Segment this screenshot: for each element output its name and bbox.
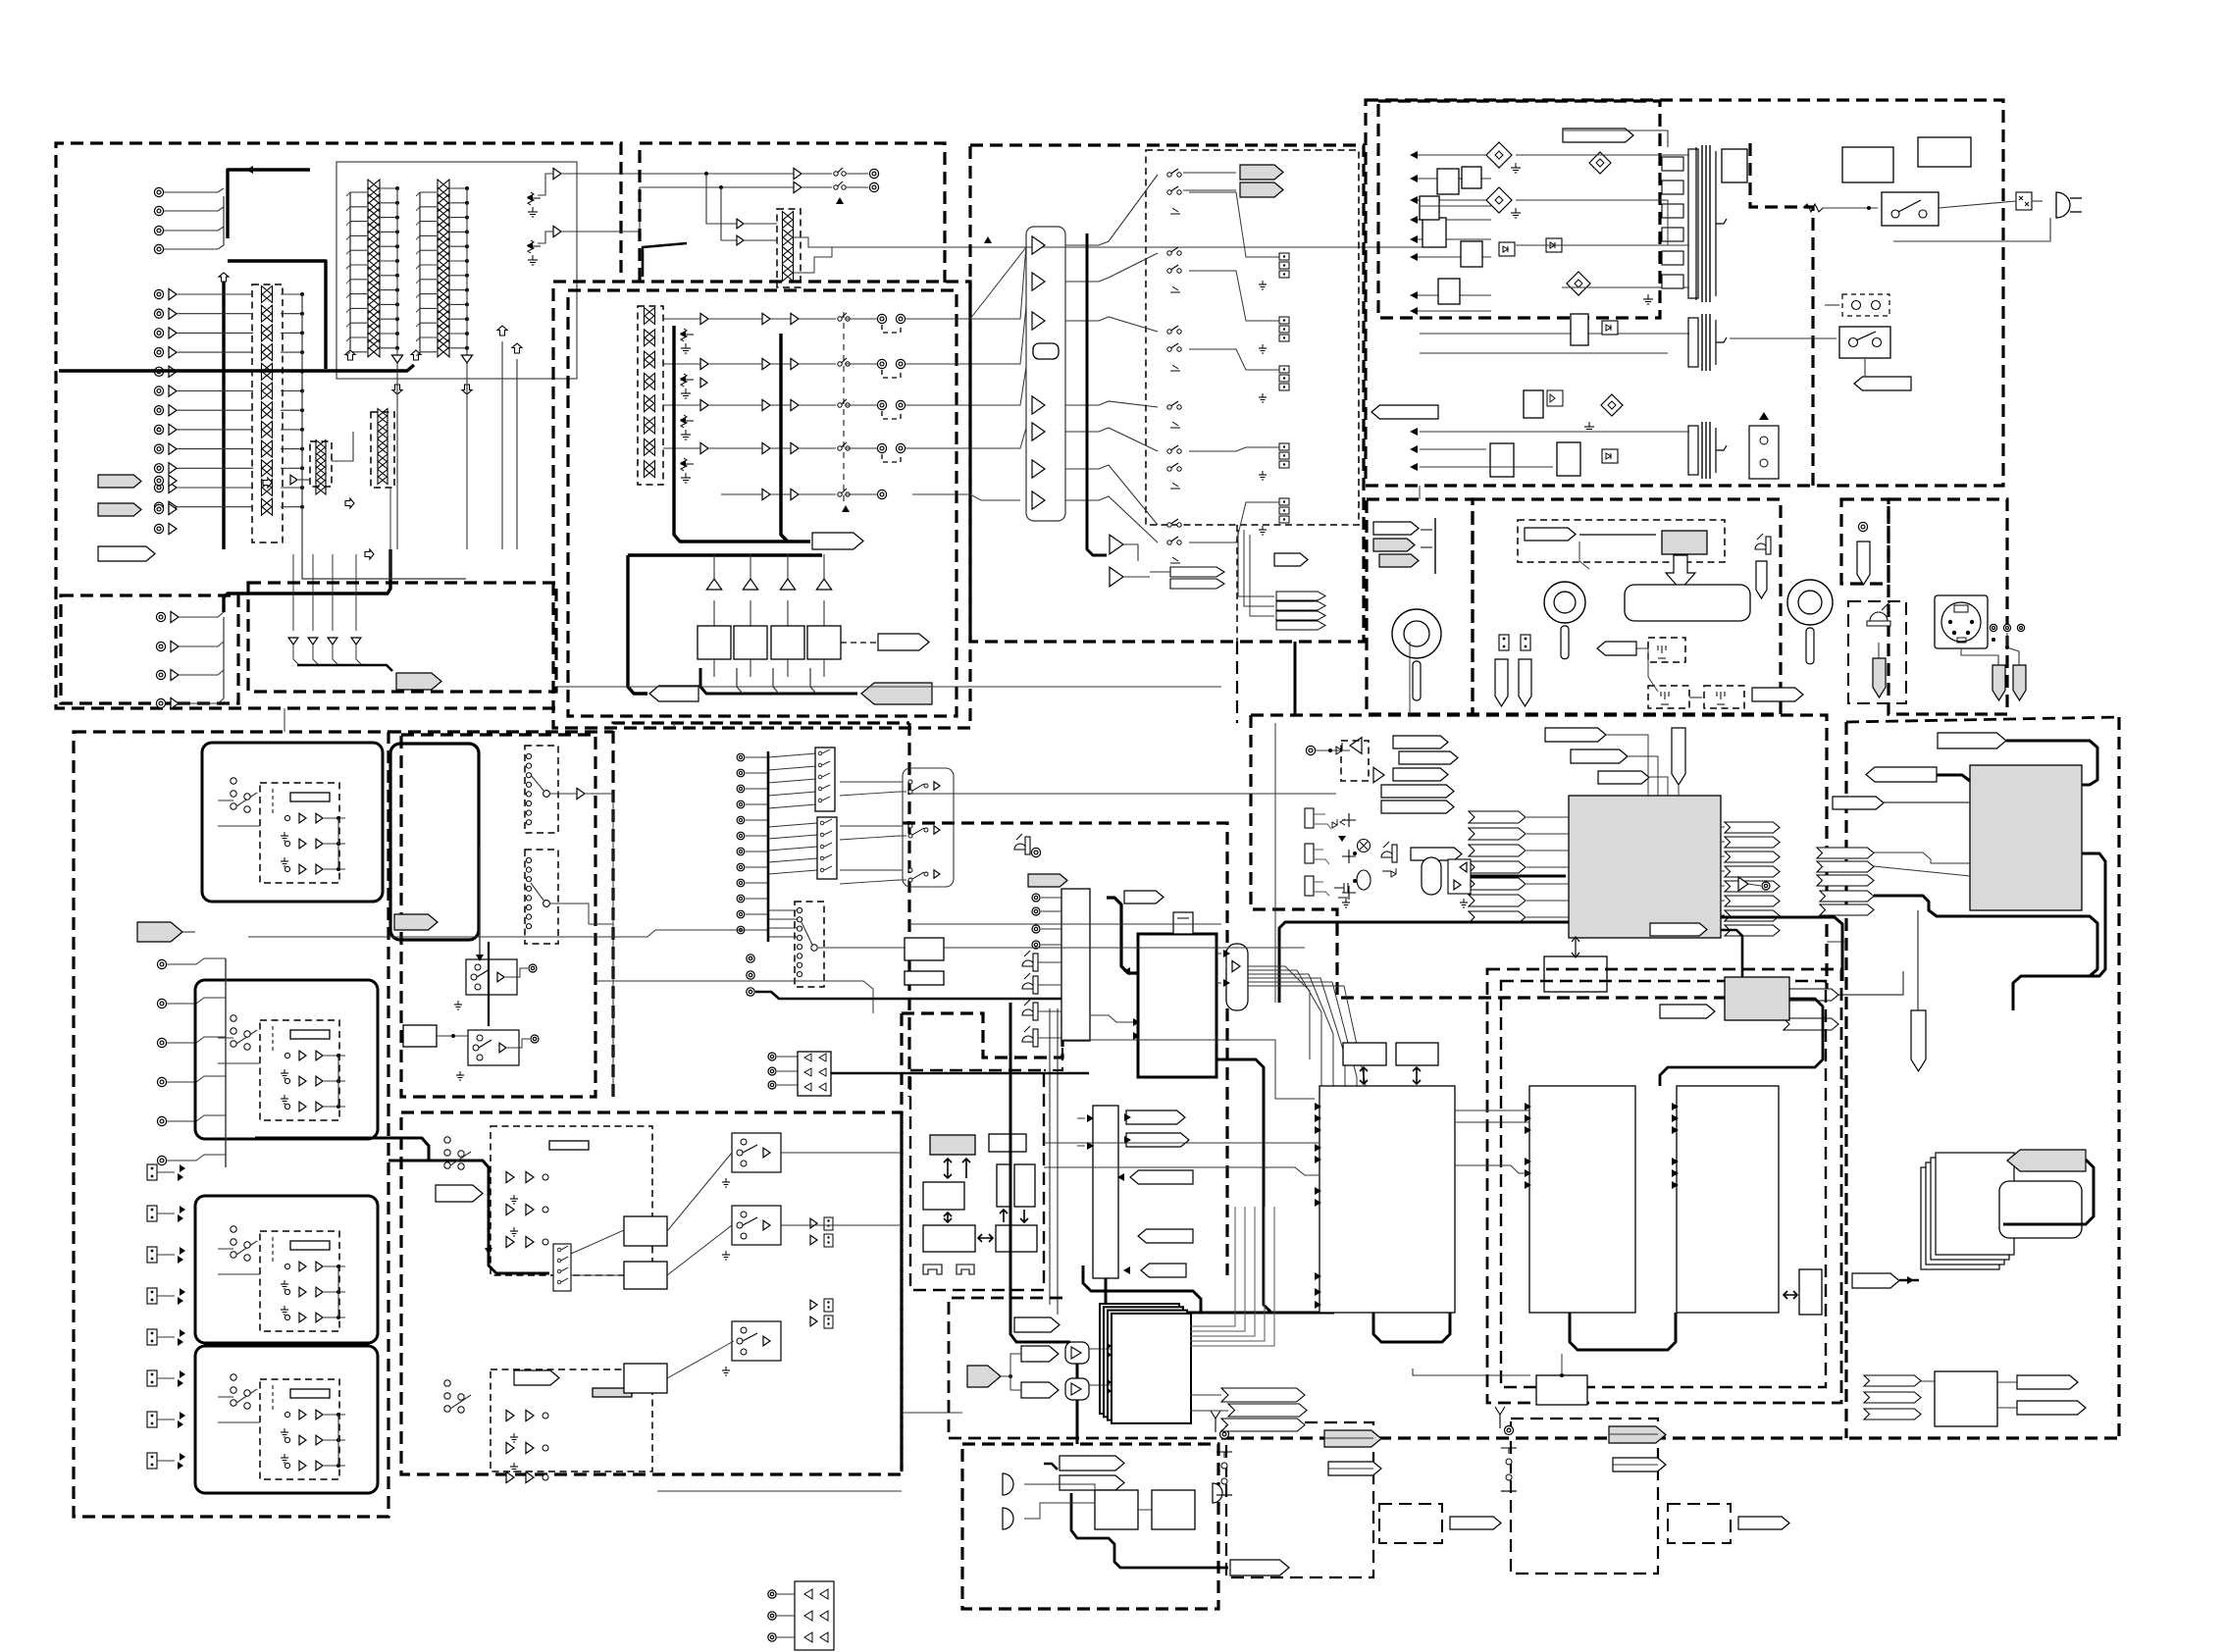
terminal stack 3 <box>1279 366 1289 390</box>
psu wire h5 <box>1420 352 1668 354</box>
xlr wire 6 <box>157 1377 175 1379</box>
strip 1 fan2 <box>244 794 250 812</box>
wire 2tr 1 <box>777 1056 798 1058</box>
dashed fan box 2 <box>525 850 558 944</box>
wire ladder B4 out <box>450 231 467 232</box>
chevron dsp out 4 <box>1725 866 1780 877</box>
wire pa drop 3 <box>787 554 789 579</box>
cb2 tri a3 <box>506 1236 514 1247</box>
mn jack low 2 <box>747 971 754 979</box>
strip 2 fan lever <box>236 1030 257 1044</box>
bus mn to m3 <box>909 923 1221 925</box>
xlr wire 2 <box>157 1213 175 1214</box>
mn out wire 1 <box>840 781 903 783</box>
wire bottom cluster 2 <box>777 1615 795 1617</box>
buffer CH10 <box>169 463 177 474</box>
wireless rx 2 label b <box>1613 1458 1666 1471</box>
wire ladder B9 out <box>450 303 467 305</box>
dashed box: fader slider <box>1518 520 1725 562</box>
mn bus-bank2 5 <box>768 870 817 874</box>
jack group out 3a <box>877 400 886 409</box>
mn out sw 3 <box>908 868 928 882</box>
wire rec out 1c <box>846 173 868 175</box>
cb2 swbox gnd 3 <box>722 1367 730 1375</box>
node ladder B8 <box>465 288 469 292</box>
label sel 3 <box>1130 1170 1193 1184</box>
cb2 circ u1 <box>543 1174 548 1180</box>
VCA rec 3 <box>783 247 794 256</box>
wire group row 2b <box>708 363 762 365</box>
ladder A corner 9 <box>346 308 350 312</box>
wire dsp out 2 <box>1721 841 1725 843</box>
cb2 tri d3 <box>526 1471 534 1482</box>
cb2 rca 4 <box>824 1316 833 1328</box>
arrow w2 in 6 <box>1525 1181 1531 1189</box>
rect: ctrl2 <box>996 1225 1037 1252</box>
buffer CH8 <box>169 424 177 435</box>
jack bottom cluster 3 <box>768 1633 776 1641</box>
xlr arrow 5 <box>180 1329 185 1337</box>
VCA group 2 <box>645 337 655 346</box>
VCA aux2 3 <box>378 439 388 447</box>
buffer CH1 <box>169 288 177 299</box>
node ladder B12 <box>465 346 469 350</box>
wire w loop join <box>1413 1368 1530 1375</box>
wire mux m1 <box>1038 961 1061 963</box>
jack J3 (2TR/tape in) <box>154 226 163 234</box>
chevron dsp in 3 <box>1469 845 1526 856</box>
wire out 478 <box>1065 465 1158 525</box>
insert arrow 1 <box>288 638 298 645</box>
wire ladder B2 out <box>450 202 467 204</box>
jack 2tr 2 <box>768 1067 776 1075</box>
wire sel in 1 <box>1077 1117 1085 1119</box>
VCA ladder A6 <box>368 252 380 262</box>
arrow main down <box>485 1248 492 1255</box>
uc swbox wire 1 <box>505 968 528 977</box>
bus group 3 to out <box>970 367 1026 405</box>
node c4b <box>1992 638 1995 642</box>
mn jack 3 <box>737 785 745 793</box>
mn out tri 3 <box>934 870 940 878</box>
power amp block 4 <box>807 626 841 659</box>
cb2 lever 1410 <box>450 1395 471 1409</box>
block W3 side: sram <box>1799 1269 1822 1315</box>
transformer T1 main <box>1688 145 1727 302</box>
chevron stack: main outs <box>1276 592 1325 630</box>
thick bus: to ladder <box>228 261 326 369</box>
psu small rect x2 <box>1462 167 1481 188</box>
pa wire 3 <box>1024 1503 1095 1519</box>
wire pa out 3 <box>787 659 789 677</box>
VCA ladder B9 <box>438 295 449 305</box>
psu wire h3 <box>1562 286 1689 288</box>
mn out sw 2 <box>908 824 928 838</box>
jack group out 4a <box>877 443 886 452</box>
label grey c1b <box>1379 554 1419 567</box>
wire dsp in 4 <box>1526 866 1569 868</box>
VCA ladder B8 <box>438 289 449 299</box>
wire ladder A10 out <box>381 318 397 320</box>
psu wire t3b <box>1420 448 1486 450</box>
VCA group 5 <box>645 403 655 412</box>
jack m3 in <box>1306 746 1315 754</box>
buffer tape 3 <box>171 669 179 680</box>
VCA ladder A10 <box>368 318 380 328</box>
ladder A corner 10 <box>346 323 350 327</box>
wire: cb2 to pa <box>902 1412 962 1414</box>
dashed box: group bus section (inner) <box>568 290 957 716</box>
node ladder A6 <box>395 259 399 263</box>
strip 2 w1 <box>324 1055 345 1057</box>
dashed link group 3 <box>882 411 901 419</box>
xlr arrow 8 <box>180 1453 185 1461</box>
psu wire 7 <box>1418 294 1491 296</box>
label SPEAKERS <box>878 634 929 650</box>
arrow w1 in 1 <box>1315 1103 1321 1110</box>
cb2 circ l2 <box>543 1445 548 1451</box>
group buffer b3 <box>762 399 770 410</box>
output switch 2 <box>1167 186 1181 194</box>
IC: CPU (grey) <box>930 1135 975 1155</box>
mn wire 8 <box>746 866 768 868</box>
jack mux 1 <box>1032 894 1040 902</box>
uc fan1 c3 <box>526 773 531 778</box>
strip 3 tri a3 <box>299 1313 306 1322</box>
terminal stack 2 <box>1279 317 1289 341</box>
arrow w3 in 5 <box>1672 1169 1679 1177</box>
dashed link group 4 <box>882 454 901 462</box>
monitor buffer 2 <box>1110 567 1123 587</box>
cb2 rca tri 1 <box>810 1218 817 1228</box>
strip 4 switch fan <box>231 1374 236 1406</box>
speaker sym 1 <box>1003 1473 1013 1495</box>
wire c4 2 <box>1961 648 1998 665</box>
bl bus 1 <box>225 958 227 1167</box>
strip 2 tri a3 <box>299 1102 306 1111</box>
strip 4 sw 1 <box>285 1412 289 1417</box>
node ladder B7 <box>465 274 469 278</box>
mn out tri 1 <box>934 782 940 790</box>
dashed: rb right edge <box>2117 717 2120 1438</box>
strip 4 sw 2 <box>285 1437 289 1442</box>
terminal gnd 3 <box>1259 393 1267 402</box>
block W2: DSP B <box>1529 1086 1635 1313</box>
psu reg block 2 <box>1423 218 1446 247</box>
block: DSP matrix (thick border) <box>1138 934 1216 1077</box>
long wire group 4 <box>912 447 966 449</box>
display rounded: level display <box>1625 585 1750 621</box>
strip 4 tri a1 <box>299 1410 306 1420</box>
wire tape 4 <box>179 698 224 703</box>
wire group row 3b <box>708 404 762 406</box>
psu wire t2b <box>1825 304 1839 306</box>
dashed box: control section col <box>900 1013 903 1471</box>
cb2 rca 3 <box>824 1299 833 1312</box>
thick: big route left <box>388 1160 429 1162</box>
output switch 11 <box>1167 537 1181 544</box>
thick bus group L <box>674 326 810 542</box>
rect: fuse block <box>1842 147 1893 182</box>
group buffer c1 <box>791 313 799 324</box>
ladder A corner 1 <box>346 192 350 196</box>
transformer core lines <box>1695 147 1697 300</box>
frame: output amp group <box>1026 227 1065 521</box>
wireless rx 1 wire a <box>1324 1437 1373 1439</box>
wire group A out <box>561 173 647 175</box>
ladder A corner 12 <box>346 352 350 356</box>
bl wire strip 1028 <box>218 1037 233 1039</box>
buffer rec tap 1 <box>737 219 744 229</box>
buffer ST 1 <box>169 475 177 486</box>
wire c2 links <box>1689 697 1702 698</box>
strip 1 tri a1 <box>299 813 306 823</box>
wire rec tap 1b <box>744 223 777 225</box>
psu arrow 5 <box>1410 235 1418 243</box>
wire chev bus3 <box>1250 535 1274 616</box>
wire sw-term 460 <box>1189 447 1279 451</box>
arrow down m3 <box>1338 836 1346 842</box>
rect: dram <box>923 1182 964 1210</box>
wire CH2 to VCA <box>177 313 253 315</box>
node m3 <box>1328 749 1332 752</box>
ground group 3 <box>681 430 691 439</box>
strip 2 w3 <box>324 1106 345 1108</box>
node ladder B5 <box>465 244 469 248</box>
dashed box: aux VCA column <box>310 441 332 487</box>
mn jack 2 <box>737 769 745 777</box>
bl wire strip 1243 <box>218 1248 233 1250</box>
strip 4 node 3 <box>336 1464 340 1468</box>
arrow on tape bus <box>246 166 253 174</box>
AC plug <box>2056 192 2082 218</box>
thick bus inserts <box>297 665 392 671</box>
node ladder A8 <box>395 288 399 292</box>
dashed box: fader/level controls <box>1473 499 1781 714</box>
wire ladder A1 in <box>350 191 367 193</box>
uc comm rect <box>403 1025 437 1047</box>
strip 3 w3 <box>324 1316 345 1318</box>
insert arrow 3 <box>328 638 337 645</box>
resistor squiggle <box>1803 204 1823 212</box>
cb2 circ l1 <box>543 1413 548 1419</box>
VCA group 7 <box>645 446 655 455</box>
jack c4 3 <box>2017 624 2024 631</box>
psu gnd 2 <box>1511 208 1521 218</box>
wire effect 4 <box>1089 1384 1111 1386</box>
wire from J2 <box>164 207 224 211</box>
VCA aux2 2 <box>378 431 388 439</box>
wire out 287 <box>1065 253 1158 282</box>
cb2 switch fan at 1410 <box>444 1380 450 1412</box>
uc swbox jack 2 <box>531 1035 539 1043</box>
uc fan2 c5 <box>526 896 531 901</box>
wire chev bus2 <box>1244 530 1274 606</box>
VCA ladder B9 <box>438 303 449 313</box>
node ladder A12 <box>395 346 399 350</box>
label mux out <box>1124 891 1164 903</box>
VCA aux 1 <box>316 440 326 448</box>
output amp 5 <box>1032 423 1045 440</box>
thick bus bottom ladders <box>59 365 414 371</box>
thick wire rec <box>643 243 687 277</box>
VCA ladder A2 <box>368 202 380 212</box>
ladder B corner 11 <box>416 337 420 341</box>
label POWERED SPEAKER (grey) <box>861 683 932 704</box>
buffer rec out 2 <box>794 181 802 192</box>
wire ds to w1 <box>1062 1040 1315 1099</box>
wire insert 1 <box>292 554 294 631</box>
VCA group 5 <box>645 395 655 404</box>
bus up arrow D <box>512 343 522 353</box>
dashed box: monitor selector <box>795 902 824 987</box>
group buffer a4 <box>700 442 708 453</box>
wire mux 3 <box>1041 928 1061 930</box>
VCA aux2 4 <box>378 454 388 462</box>
strip 4 tri b3 <box>316 1461 323 1471</box>
mn bus-bank1 2 <box>768 766 816 770</box>
wire mtx fan 2 <box>1248 970 1321 1089</box>
arrow w2 in 4 <box>1525 1158 1531 1165</box>
dashed box: din sub <box>1848 601 1906 703</box>
thick rb right loop <box>2082 853 2105 976</box>
wire group row 1b <box>708 318 762 320</box>
VCA group 1 <box>645 308 655 317</box>
wire ds v2 <box>1057 1008 1059 1315</box>
jack ST in 2 <box>154 504 163 513</box>
dashed box: effects return corner <box>949 1298 1062 1438</box>
dashed: rb bottom edge <box>1221 1436 2119 1439</box>
buffer after trim 202 <box>553 168 561 179</box>
strip 2 dashline <box>272 1026 274 1053</box>
wire insert 2b <box>313 645 319 665</box>
jack tape out 1 <box>156 612 165 621</box>
thick bus pa out <box>700 668 857 694</box>
mn wire 10 <box>746 898 768 900</box>
cb2 swbox gnd 1 <box>722 1178 730 1187</box>
wire mux to mtx <box>1090 1015 1138 1022</box>
power amp triangle 3 <box>780 579 795 590</box>
wire: aux bus down <box>479 847 481 959</box>
ladder A corner 5 <box>346 250 350 254</box>
wire ladder A12 in <box>350 351 367 353</box>
tuning fork sym1 <box>1658 645 1666 658</box>
ladder B corner 12 <box>416 352 420 356</box>
wire rec out 2 <box>647 186 794 188</box>
relay sym 4 <box>1170 422 1180 428</box>
VCA CH11 <box>262 488 273 496</box>
wire VCA1 out <box>281 293 302 295</box>
wire insert 2 <box>312 554 314 631</box>
cb2 gnd 2 <box>510 1227 518 1236</box>
capsule c2a <box>1495 659 1508 706</box>
VCA aux 2 <box>316 453 326 461</box>
VCA ladder A12 <box>368 339 380 349</box>
label pa out <box>1230 1560 1289 1575</box>
psu gnd 1 <box>1511 163 1521 173</box>
node ladder A2 <box>395 201 399 205</box>
thick bus: tape return <box>228 170 310 238</box>
thick rb loop1 <box>2006 741 2097 785</box>
thick effect bus <box>1083 1265 1201 1314</box>
power amp triangle 1 <box>706 579 721 590</box>
thick cascade wire <box>1899 1279 1919 1281</box>
dashed: ds right border <box>1044 1008 1062 1070</box>
psu wire h8 <box>1516 200 1668 245</box>
rect: input mux tall <box>1061 889 1090 1041</box>
pa drop 3 <box>773 668 779 694</box>
xlr input 4 <box>147 1288 157 1304</box>
strip 4 node 1 <box>336 1413 340 1417</box>
label MAIN grey <box>396 673 441 690</box>
thick wire: tape bus up <box>224 549 390 612</box>
wire tl1 to bl <box>284 708 285 732</box>
group buffer c4 <box>791 442 799 453</box>
xlr arrow 6 <box>180 1370 185 1378</box>
bus down arrow A <box>392 385 402 394</box>
thick ds route2 <box>1009 1003 1012 1265</box>
VCA group 3 <box>645 351 655 360</box>
jack J2 (2TR/tape in) <box>154 206 163 215</box>
pot: phones level <box>1392 609 1441 700</box>
IC: SRC/ADAT (grey) <box>1970 765 2082 910</box>
pa block 1 <box>1095 1490 1138 1529</box>
cb2 wire u1 <box>571 1230 624 1254</box>
wire ladder A8 in <box>350 293 367 295</box>
strip 4 tri a3 <box>299 1461 306 1471</box>
label grey c1a <box>1373 539 1415 551</box>
node ladder B6 <box>465 259 469 263</box>
mn jack 12 <box>737 926 745 934</box>
diode m3 c <box>1382 868 1396 877</box>
label wc out1 <box>2017 1375 2078 1389</box>
dashed box: record out section <box>640 143 945 290</box>
xlr arrow2 1 <box>178 1173 183 1181</box>
dashed box: lamp/din <box>1889 499 2007 714</box>
strip 3 out bus <box>337 1266 339 1317</box>
wire dsp t1 <box>1606 735 1648 796</box>
grey rect: fader knob <box>1662 531 1707 554</box>
buffer CH3 <box>169 328 177 338</box>
psu node <box>1867 206 1871 210</box>
jack mux 2 <box>1032 907 1040 915</box>
tri-in-box 1 <box>1065 1342 1089 1364</box>
uc swbox 1 <box>466 959 517 995</box>
wire ladder A8 out <box>381 289 397 291</box>
wire mux 2 <box>1041 910 1061 912</box>
bus ladder A left <box>349 192 351 353</box>
uc fan1 pole <box>543 791 550 798</box>
wire VCA6 out <box>281 390 302 392</box>
thick bus: input main <box>222 276 225 549</box>
rect: osc2 <box>1014 1164 1035 1207</box>
uc fan2 c8 <box>526 924 531 929</box>
psu arrow 7 <box>1410 291 1418 299</box>
wire group row 3f <box>906 404 970 406</box>
arrow mtx r1 <box>1223 950 1230 957</box>
frame: ladder matrix frame <box>336 162 577 379</box>
jack mono ch 3 <box>157 1038 166 1047</box>
hollow arrow right 3 <box>365 549 374 559</box>
buffer ST 2 <box>169 503 177 514</box>
ladder B corner 1 <box>416 192 420 196</box>
transformer T2 <box>1688 314 1727 371</box>
rect: 2tr cluster bottom <box>795 1581 834 1650</box>
rect wram2 <box>1396 1043 1438 1065</box>
node ladder A10 <box>395 317 399 321</box>
wire VCA4 out <box>281 351 302 353</box>
dashed box: tape input sub-section <box>61 595 238 703</box>
